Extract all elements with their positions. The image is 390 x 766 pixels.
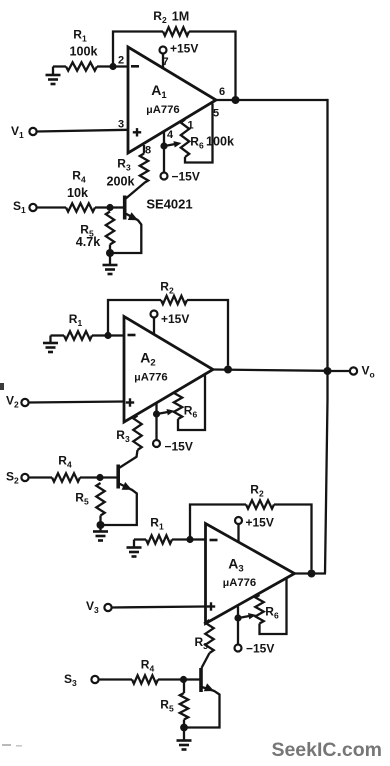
wire R3 to collector (A2) [119, 450, 138, 468]
svg-text:1M: 1M [172, 10, 190, 24]
node pin2 A1 [109, 63, 116, 70]
wire R1 to node [97, 65, 113, 67]
node pin2 A3 [186, 536, 193, 543]
wire node to pin2 (A3) [190, 538, 206, 540]
svg-text:100k: 100k [69, 45, 98, 59]
wire base [110, 206, 124, 208]
wiper arrow A2 [153, 409, 175, 418]
svg-text:μA776: μA776 [134, 372, 167, 384]
svg-text:+15V: +15V [246, 516, 274, 530]
supply +15V (A1 pin 7) [160, 42, 199, 70]
potentiometer R6 100k (stage A1) [181, 104, 235, 163]
node Vo junction [324, 367, 332, 375]
wire feedback A2 left/top [108, 300, 161, 336]
supply -15V (A2 pin 4) [153, 440, 193, 454]
svg-text:5: 5 [213, 108, 219, 120]
ground (A3 input bias) [127, 540, 142, 557]
wire pin4 to -15V (A2) [155, 403, 157, 440]
node emitter/R5/ground [106, 249, 114, 257]
scan specks bottom left [2, 744, 22, 747]
terminal V3 [86, 599, 112, 615]
wire R3 to collector [125, 183, 144, 199]
node emitter/R5/ground (Q3) [180, 724, 188, 732]
wire V3 to pin3 [112, 607, 206, 608]
resistor R5 (stage A3) [160, 680, 188, 728]
wire feedback A3 left/top [190, 505, 246, 540]
svg-text:R2: R2 [153, 9, 167, 25]
wire S2 to R4 [29, 476, 52, 478]
svg-text:3: 3 [118, 119, 124, 131]
svg-text:V1: V1 [11, 124, 24, 140]
wire emitter return [111, 220, 141, 253]
svg-text:4: 4 [167, 129, 174, 141]
resistor R4 (stage A2) [52, 454, 80, 482]
node pin2 A2 [104, 332, 111, 339]
transistor Q3 [201, 668, 214, 692]
resistor R3 (stage A2) [116, 416, 141, 451]
pin number 4 [167, 129, 174, 141]
wire R1 left lead (A2) [51, 334, 65, 336]
svg-text:R3: R3 [116, 428, 130, 444]
potentiometer R6 (stage A3) [255, 578, 286, 635]
svg-text:R2: R2 [160, 280, 174, 296]
wire S3 to R4 [99, 678, 132, 680]
svg-text:R1: R1 [73, 28, 87, 44]
wire output rail [325, 99, 328, 574]
svg-text:R1: R1 [150, 516, 164, 532]
wire feedback A3 right [274, 505, 312, 570]
ground (Q3 emitter) [177, 728, 192, 750]
pin number 3 [118, 119, 124, 131]
svg-text:R3: R3 [195, 635, 209, 651]
svg-text:μA776: μA776 [146, 104, 179, 116]
svg-text:10k: 10k [67, 186, 89, 200]
terminal V1 [11, 124, 37, 140]
ground (A1 input bias) [46, 67, 61, 85]
node emitter/R5/ground (Q2) [97, 521, 105, 529]
svg-text:R2: R2 [250, 483, 264, 499]
wire node to pin 2 [113, 65, 128, 67]
wire V1 to pin 3 [37, 130, 128, 132]
supply -15V (A1 pin 4) [161, 170, 200, 184]
svg-text:R6: R6 [190, 135, 204, 151]
node Q2 base [96, 474, 103, 481]
resistor R1 100k (stage A1) [66, 28, 98, 71]
svg-text:μA776: μA776 [223, 577, 256, 589]
wire to Vo terminal [328, 370, 350, 372]
svg-text:R5: R5 [75, 491, 89, 507]
pin number 1 [187, 120, 193, 132]
ground (Q1 emitter) [103, 253, 118, 274]
svg-text:R3: R3 [117, 157, 131, 173]
wire node to pin2 (A2) [108, 334, 124, 336]
resistor R2 (stage A2) [160, 280, 187, 305]
svg-text:SE4021: SE4021 [146, 197, 192, 212]
wire R4 to base node (A2) [80, 476, 100, 478]
pin number 6 [219, 86, 225, 98]
supply +15V (A2 pin 7) [151, 311, 190, 335]
svg-text:+15V: +15V [170, 42, 198, 56]
wire R1 left lead [53, 65, 66, 67]
svg-text:200k: 200k [106, 175, 135, 189]
svg-text:R4: R4 [72, 169, 86, 185]
wire R1 left lead (A3) [134, 538, 146, 540]
wire feedback A1 right [189, 32, 236, 97]
svg-text:Vo: Vo [362, 364, 375, 380]
wire R4 to base node (A3) [158, 678, 184, 680]
ground (A2 input bias) [43, 336, 58, 353]
svg-text:−15V: −15V [172, 170, 200, 184]
svg-text:A1: A1 [151, 82, 167, 101]
transistor Q1 SE4021 [125, 196, 193, 221]
resistor R5 (stage A2) [75, 483, 104, 525]
wire V2 to pin3 [29, 402, 124, 403]
node A2 feedback [224, 366, 232, 374]
wiper arrow A1 pin4 [160, 141, 181, 149]
wiper arrow A3 [234, 613, 256, 622]
svg-text:V3: V3 [86, 599, 99, 615]
resistor R3 (stage A3) [195, 620, 214, 653]
node A1 output [232, 96, 240, 104]
scan speck left edge [0, 383, 4, 390]
watermark SeekIC.com [271, 739, 382, 762]
wire base (Q3) [184, 678, 200, 680]
svg-text:R6: R6 [265, 605, 279, 621]
svg-text:8: 8 [145, 145, 151, 157]
svg-text:R5: R5 [160, 698, 174, 714]
wire pin 8 lead [143, 145, 145, 154]
wire R1 to node (A3) [172, 538, 190, 540]
resistor R1 (stage A3) [146, 516, 172, 544]
wire pin4 to -15V [163, 132, 165, 173]
op-amp U2 A2 uA776 [124, 317, 213, 423]
transistor Q2 [118, 465, 132, 490]
svg-text:R4: R4 [58, 454, 72, 470]
svg-text:4.7k: 4.7k [76, 235, 102, 249]
svg-text:A2: A2 [140, 350, 155, 369]
resistor R4 10k (stage A1) [66, 169, 95, 212]
node Q1 base [106, 204, 113, 211]
pin number 7 [162, 56, 168, 68]
terminal S3 [64, 672, 99, 688]
wire R4 to base node [95, 206, 110, 208]
wire base (Q2) [100, 476, 117, 478]
terminal S2 [6, 470, 29, 486]
wire A3 output [295, 572, 327, 574]
svg-text:A3: A3 [228, 556, 243, 575]
pin number 5 [213, 108, 219, 120]
ground (Q2 emitter) [93, 525, 108, 541]
svg-text:−15V: −15V [165, 440, 193, 454]
terminal V2 [6, 394, 29, 410]
resistor R3 200k (stage A1) [106, 154, 148, 189]
svg-text:S1: S1 [13, 199, 26, 215]
wire pin4 to -15V (A3) [237, 607, 239, 645]
svg-text:S3: S3 [64, 672, 77, 688]
svg-text:R6: R6 [184, 404, 198, 420]
wire feedback A1 left/top [113, 32, 163, 67]
resistor R5 4.7k (stage A1) [76, 212, 114, 254]
svg-text:2: 2 [118, 55, 124, 67]
wire R3 to collector (A3) [202, 653, 210, 668]
wire emitter return (Q2) [104, 490, 137, 525]
op-amp U3 A3 uA776 [206, 524, 295, 624]
resistor R2 (stage A3) [246, 483, 274, 509]
svg-text:+15V: +15V [161, 312, 189, 326]
svg-text:R4: R4 [141, 658, 155, 674]
terminal S1 [13, 199, 37, 215]
wire emitter return (Q3) [187, 691, 220, 728]
wire R1 to node (A2) [92, 334, 108, 336]
resistor R2 1M (stage A1) [153, 9, 189, 36]
wire A2 output [213, 370, 328, 371]
op-amp U1 A1 uA776 [128, 47, 216, 153]
resistor R1 (stage A2) [64, 312, 92, 340]
wire feedback A2 right [187, 300, 228, 366]
wire S1 to R4 [37, 206, 66, 208]
svg-text:S2: S2 [6, 470, 19, 486]
svg-text:6: 6 [219, 86, 225, 98]
potentiometer R6 (stage A2) [174, 373, 205, 430]
resistor R4 (stage A3) [132, 658, 158, 684]
svg-text:R1: R1 [69, 312, 83, 328]
svg-text:100k: 100k [206, 135, 235, 149]
supply -15V (A3 pin 4) [235, 642, 275, 656]
pin number 8 [145, 145, 151, 157]
supply +15V (A3 pin 7) [235, 516, 274, 543]
svg-text:V2: V2 [6, 394, 19, 410]
terminal Vo [350, 364, 375, 380]
pin number 2 [118, 55, 124, 67]
svg-text:−15V: −15V [246, 642, 274, 656]
node Q3 base [180, 676, 187, 683]
node A3 output [308, 570, 316, 578]
wire A1 output [216, 99, 328, 101]
